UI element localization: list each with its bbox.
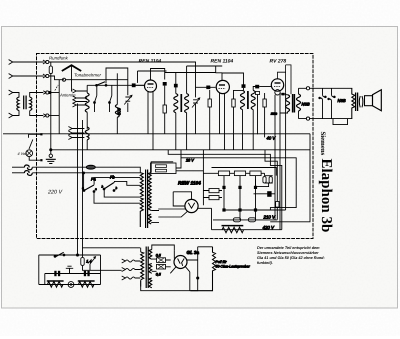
svg-text:220 V: 220 V — [47, 190, 63, 196]
switch Sb lever — [97, 82, 106, 86]
svg-text:REW 1164: REW 1164 — [178, 181, 201, 187]
staircase s3 — [181, 150, 296, 210]
trimmer C3 — [193, 62, 198, 134]
svg-text:0,5: 0,5 — [156, 272, 161, 276]
wire A 220 — [213, 219, 277, 221]
caps 2x05 — [157, 258, 166, 263]
caps box outline — [212, 168, 277, 176]
tube Gl.3a — [174, 256, 187, 269]
svg-text:NSB: NSB — [302, 102, 311, 107]
mid caps left — [209, 189, 219, 193]
tube V2 — [216, 80, 229, 93]
resistor R1 — [163, 105, 166, 113]
svg-text:Siemens Netzanschlussverstärke: Siemens Netzanschlussverstärker — [257, 251, 319, 255]
wire bottom speaker y118.6 — [299, 118, 353, 120]
cap C6b rect — [255, 92, 259, 95]
secondary windings — [148, 173, 151, 201]
cap C1 black — [132, 83, 136, 87]
jack pair J2 — [329, 88, 333, 118]
svg-text:REN 1104: REN 1104 — [139, 59, 162, 65]
anode bus y66 — [187, 65, 223, 67]
wire mains L2 — [12, 172, 24, 174]
heater tap 3 — [122, 276, 141, 280]
cap C4 black — [206, 86, 210, 90]
battery box top wire — [39, 254, 101, 256]
svg-text:funkteil).: funkteil). — [257, 261, 273, 265]
resistor R-ant oval — [50, 62, 52, 66]
wire mains L1 — [12, 166, 24, 168]
wire B 420 — [212, 208, 282, 229]
node bus150 — [50, 149, 52, 151]
cap C-mid — [267, 191, 271, 197]
variable cap C-tune — [125, 97, 130, 112]
svg-text:Der umrandete Teil entspricht: Der umrandete Teil entspricht dem — [257, 246, 320, 250]
plug-socket 1 — [43, 60, 46, 64]
antenna symbol — [55, 65, 81, 91]
cap C6 black — [255, 85, 259, 89]
wire grid V2 — [196, 86, 216, 88]
svg-text:REN 1104: REN 1104 — [211, 59, 234, 65]
resistor R2b — [234, 90, 243, 149]
socket out 1 — [306, 87, 309, 90]
svg-text:500: 500 — [117, 107, 122, 115]
svg-text:NSB: NSB — [338, 98, 347, 103]
wire top tune y85.3 — [87, 84, 144, 86]
svg-text:Elaphon 3b: Elaphon 3b — [318, 159, 334, 233]
bottom wire — [39, 284, 101, 286]
wire jack drop — [333, 119, 348, 125]
switch S1 — [29, 134, 41, 149]
top row caps — [218, 171, 229, 176]
svg-text:Poti für: Poti für — [216, 260, 228, 264]
wire bus y79.7 — [66, 79, 128, 81]
tube REW1164 — [185, 199, 198, 212]
terminal chevron in 2 — [9, 74, 43, 78]
wire grid V1 — [136, 84, 145, 86]
resistor R14 — [81, 258, 84, 266]
wires switch to transformer — [84, 172, 141, 203]
wire antenna branch x59 — [58, 80, 60, 134]
coil L2 500 — [116, 73, 118, 104]
small antenna sym — [66, 266, 73, 273]
lever a — [84, 185, 94, 191]
svg-text:Siemens: Siemens — [319, 132, 326, 156]
tube V1 — [145, 80, 157, 92]
rectifier section — [151, 158, 212, 217]
wire mains to fuse — [32, 167, 140, 173]
junction dots — [222, 186, 225, 189]
terminal chevron in 1 — [9, 60, 43, 64]
bus y134 — [3, 133, 310, 135]
svg-text:210 V: 210 V — [263, 214, 277, 219]
svg-text:28 V: 28 V — [185, 158, 194, 162]
jack pair J1 — [320, 88, 324, 118]
wire lever loop y68 — [106, 68, 128, 95]
resistor Rh2 — [79, 282, 94, 288]
resistor R-pot bottom — [190, 247, 215, 291]
coil L1 tap arrows — [71, 89, 87, 93]
T3 core — [146, 247, 148, 289]
coil L1 — [85, 93, 89, 112]
oval cap A2 — [248, 218, 255, 222]
left side — [38, 255, 40, 285]
RF transformer TR2 — [241, 87, 258, 150]
switch Sc — [110, 85, 112, 112]
T3 right windings — [149, 250, 152, 260]
anode V1 up — [151, 69, 165, 81]
plug-socket 3 — [43, 91, 46, 95]
wire vertical x50.8 — [50, 74, 52, 150]
T3 left winding — [141, 252, 144, 280]
svg-text:Fb: Fb — [110, 175, 115, 180]
chassis dashed border — [37, 54, 314, 239]
staircase s1 — [265, 150, 277, 202]
B+ feed vertical — [285, 93, 287, 210]
resistor box above rectifier — [151, 163, 177, 174]
wire bus y149.8 — [51, 149, 310, 151]
terminal chevron in 3 — [9, 90, 19, 97]
cap C2 black — [163, 82, 167, 86]
pot arrow — [90, 258, 95, 264]
bleeder resistor zigzag — [222, 227, 243, 232]
heater arrows group — [122, 259, 141, 280]
note text bottom right — [257, 246, 325, 265]
heater tap 1 — [122, 259, 141, 263]
tube V1 legs — [148, 91, 153, 150]
tube V3 legs — [275, 95, 280, 230]
RF transformer TR1 — [165, 66, 223, 150]
switch Sa — [95, 85, 97, 112]
resistor R-s1 — [276, 202, 279, 208]
mains plug — [24, 165, 32, 170]
fuse Si — [86, 165, 95, 169]
mid wire caps — [45, 273, 101, 275]
anode V3 — [278, 65, 292, 94]
speaker cone — [365, 96, 373, 106]
svg-text:40 V: 40 V — [267, 136, 277, 141]
staircase s2 — [168, 150, 282, 230]
node row3 — [49, 91, 51, 93]
node pickup — [63, 78, 66, 81]
earth ground — [50, 150, 52, 154]
svg-text:zum: zum — [270, 112, 277, 116]
wire vert x82.5 — [83, 120, 141, 248]
resistor R2 — [208, 99, 211, 107]
output transformer TR3 — [270, 88, 301, 118]
coil L3 — [85, 127, 89, 140]
oval cap A1 — [233, 218, 240, 222]
plug-socket 2 — [43, 74, 46, 78]
vertical rails — [224, 176, 256, 220]
svg-text:Gla 41 und Gla 50 (Gla 42 ohne: Gla 41 und Gla 50 (Gla 42 ohne Rund- — [257, 256, 325, 260]
terminal chevron in 4 — [9, 111, 19, 118]
svg-text:50-Ohm-Lautsprecher: 50-Ohm-Lautsprecher — [216, 265, 251, 269]
resistor R3 — [263, 99, 266, 107]
tube V2 legs — [220, 93, 225, 150]
svg-text:Tonabnehmer: Tonabnehmer — [74, 73, 101, 78]
svg-text:RV 278: RV 278 — [270, 59, 287, 65]
speaker cap bars — [356, 93, 358, 112]
svg-text:Rundfunk: Rundfunk — [49, 56, 69, 61]
cap C5 black — [242, 84, 246, 88]
primary winding — [140, 173, 143, 197]
lamp La 4V — [26, 150, 33, 157]
tube V3 — [271, 79, 283, 91]
svg-text:4 Volt: 4 Volt — [18, 152, 29, 156]
meter A — [68, 282, 74, 288]
twin electrolytics — [265, 173, 273, 175]
anode V2 — [216, 73, 244, 85]
labels top-left — [49, 56, 101, 98]
wire gridleak y71 — [138, 71, 167, 83]
wire top speaker y88.3 — [299, 87, 353, 89]
field coil resistor — [352, 88, 355, 118]
anode bus y72.5 — [165, 72, 216, 74]
wires tube GL — [170, 251, 197, 273]
plug-socket 4 — [43, 114, 46, 118]
resistor Rh1 — [48, 282, 63, 288]
socket out 2 — [306, 117, 309, 120]
core T2 — [146, 170, 148, 229]
speaker return vertical — [270, 134, 310, 222]
switch S2 — [55, 252, 64, 257]
pickup bus — [63, 78, 128, 81]
lever b — [104, 183, 114, 190]
heater tap 2 — [122, 268, 141, 272]
input transformer T0 — [17, 93, 44, 116]
svg-text:0,5: 0,5 — [156, 253, 161, 257]
coil L3 lower taps — [68, 127, 84, 131]
wire vert x77.5 — [39, 104, 78, 256]
wire 210V — [224, 209, 286, 211]
speaker cap arcs — [359, 96, 363, 107]
